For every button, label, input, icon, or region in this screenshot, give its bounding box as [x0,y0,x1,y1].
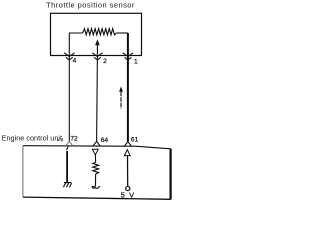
svg-text:64: 64 [101,137,109,144]
ECU terminal 61 connector fork [124,142,131,147]
svg-text:1: 1 [134,59,138,66]
svg-text:V: V [129,190,134,199]
connector terminal 2 (mating chevrons) [92,53,102,57]
wire: triangle to resistor [94,155,96,163]
input symbol (hollow up triangle) at terminal 61 [124,150,130,156]
svg-text:72: 72 [70,136,78,143]
wire: resistor lower lead with curl [92,174,100,188]
leader tick [61,138,64,141]
ground (chassis) [64,182,71,184]
svg-text:5: 5 [121,190,125,199]
wire: pin 4 to ECU terminal 72 [68,55,70,141]
svg-text:2: 2 [103,58,107,65]
throttle position sensor box [51,13,142,55]
svg-text:4: 4 [73,57,77,64]
leader dot [57,139,59,141]
resistor (vertical) [93,162,99,174]
wire: pin 1 to ECU terminal 61 (bold) [127,33,129,141]
ECU terminal 72 connector fork [66,141,73,146]
svg-text:Throttle position sensor: Throttle position sensor [46,1,135,10]
engine control unit box top edge [23,146,171,149]
wire: wiper to pin 2 [96,45,98,56]
harness tick below terminal 72 [67,147,69,151]
connector terminal 1 (mating chevrons) [123,53,133,57]
wire: pin 2 to ECU terminal 64 [96,55,99,141]
ECU terminal 64 connector fork [93,141,101,146]
connector terminal 4 (mating chevrons) [64,53,74,57]
svg-text:Engine control unit: Engine control unit [2,134,62,143]
svg-text:61: 61 [131,136,139,143]
wire: terminal 72 to ground (bold) [66,151,68,182]
signal direction arrow [119,86,123,91]
5V supply node (circle) [126,186,130,190]
ECU box right wall (bold) [170,149,172,200]
wire: pin 1 lead inside sensor [116,32,128,34]
engine control unit box bottom wall [23,197,171,199]
output symbol (hollow down triangle) at terminal 64 [92,149,98,155]
resistor (potentiometer track) [83,29,117,35]
wire: triangle to 5V node [127,156,129,187]
potentiometer wiper arrow [95,39,100,45]
engine control unit box left wall (faint) [22,146,24,197]
wire: pin 4 lead inside sensor [69,33,82,55]
